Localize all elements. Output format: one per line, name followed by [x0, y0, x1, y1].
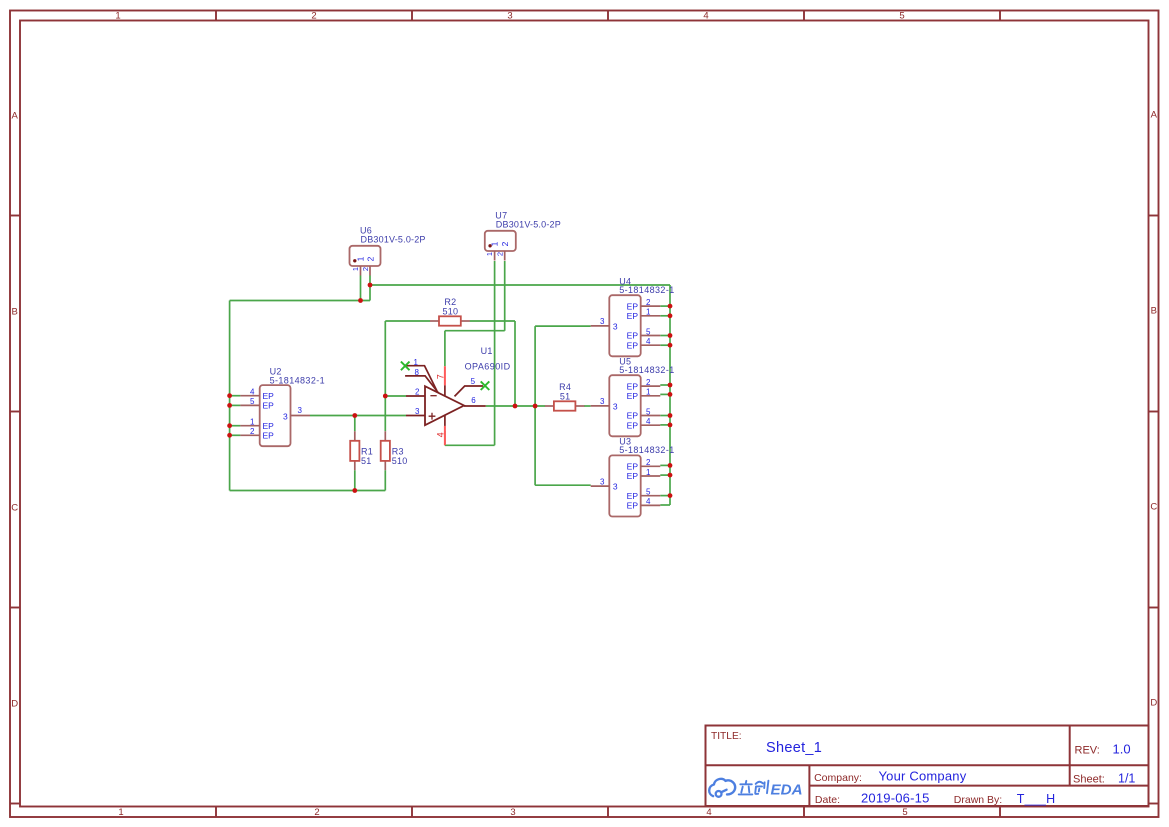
svg-text:5: 5: [471, 377, 476, 386]
svg-text:2: 2: [646, 458, 651, 467]
node feedback junction: [513, 404, 518, 409]
svg-text:EDA: EDA: [771, 781, 803, 798]
wire R2 feedback drop: [514, 321, 516, 406]
wire EP rail link: [660, 504, 670, 506]
svg-text:1/1: 1/1: [1118, 771, 1135, 785]
op-amp U1 pin 1: [406, 366, 437, 391]
svg-text:5-1814832-1: 5-1814832-1: [619, 365, 674, 375]
connector U4 5-1814832-1: [591, 276, 675, 356]
op-amp U1 pin 2 stub: [406, 395, 425, 397]
svg-text:EP: EP: [263, 401, 275, 411]
op-amp U1 OPA690ID: [401, 346, 511, 445]
svg-text:2: 2: [361, 267, 370, 271]
wire U6 pin2 drop: [369, 276, 371, 301]
wire noninverting input: [310, 415, 406, 417]
wire inverting input: [385, 395, 406, 397]
node U2 EP5 junction: [227, 403, 232, 408]
op-amp U1 pin 7 stub: [444, 385, 446, 396]
node U6 pin2 junction: [368, 283, 373, 288]
svg-text:4: 4: [703, 10, 708, 21]
wire R3 top vertical: [384, 321, 386, 431]
svg-text:3: 3: [510, 807, 515, 818]
svg-text:3: 3: [613, 321, 618, 331]
wire R4 to U5: [584, 405, 591, 407]
svg-text:3: 3: [283, 411, 288, 421]
wire EP rail right vertical: [669, 285, 671, 505]
wire R2 left: [385, 320, 430, 322]
node U4 EP1 junction: [668, 313, 673, 318]
wire U2 EP link: [230, 404, 241, 406]
resistor R1: [350, 431, 373, 470]
svg-text:7: 7: [435, 374, 445, 379]
svg-text:3: 3: [600, 317, 605, 326]
wire EP rail horizontal: [370, 284, 670, 286]
node U4 EP2 junction: [668, 304, 673, 309]
wire EP rail link: [660, 344, 670, 346]
svg-text:Your Company: Your Company: [879, 769, 967, 784]
svg-text:Sheet_1: Sheet_1: [766, 740, 822, 756]
svg-text:EP: EP: [627, 340, 639, 350]
wire EP rail link: [660, 474, 670, 476]
svg-text:3: 3: [415, 407, 420, 416]
svg-text:5: 5: [902, 807, 907, 818]
wire opamp pin7 vertical: [444, 331, 446, 367]
svg-text:6: 6: [471, 396, 476, 405]
svg-text:EP: EP: [627, 462, 639, 472]
svg-text:DB301V-5.0-2P: DB301V-5.0-2P: [361, 234, 426, 244]
svg-text:4: 4: [646, 337, 651, 346]
title block: [706, 726, 1149, 807]
svg-text:T___H: T___H: [1017, 792, 1056, 806]
svg-text:2: 2: [365, 256, 375, 261]
wire GND bottom horizontal: [230, 490, 386, 492]
node U2 EP4 junction: [227, 393, 232, 398]
wire R3 bottom: [384, 470, 386, 490]
svg-text:2: 2: [500, 241, 510, 246]
svg-text:R4: R4: [559, 382, 571, 392]
svg-text:EP: EP: [627, 391, 639, 401]
wire GND left vertical: [229, 301, 231, 491]
svg-text:1: 1: [250, 418, 255, 427]
svg-text:3: 3: [600, 477, 605, 486]
svg-text:5: 5: [646, 327, 651, 336]
svg-text:1.0: 1.0: [1113, 742, 1131, 757]
svg-text:EP: EP: [627, 491, 639, 501]
node U5 EP2 junction: [668, 383, 673, 388]
svg-text:C: C: [1150, 501, 1157, 512]
svg-text:5-1814832-1: 5-1814832-1: [619, 285, 674, 295]
node noninverting junction: [352, 413, 357, 418]
node output branch junction: [533, 404, 538, 409]
svg-text:1: 1: [118, 807, 123, 818]
svg-text:Date:: Date:: [815, 794, 840, 806]
svg-text:1: 1: [485, 252, 494, 256]
connector U6 DB301V-5.0-2P: [350, 225, 426, 275]
svg-text:2: 2: [646, 378, 651, 387]
node U3 EP5 junction: [668, 493, 673, 498]
svg-text:2: 2: [496, 252, 505, 256]
svg-text:Sheet:: Sheet:: [1073, 773, 1105, 785]
node inverting junction: [383, 394, 388, 399]
node U2 EP2 junction: [227, 433, 232, 438]
svg-text:1: 1: [646, 388, 651, 397]
svg-text:51: 51: [361, 456, 372, 466]
wire EP rail link: [660, 495, 670, 497]
wire U2 EP link: [230, 425, 241, 427]
svg-text:2: 2: [314, 807, 319, 818]
node U3 EP1 junction: [668, 473, 673, 478]
svg-text:EP: EP: [627, 331, 639, 341]
svg-text:2: 2: [250, 427, 255, 436]
wire U2 EP link: [230, 434, 241, 436]
svg-text:1: 1: [646, 308, 651, 317]
svg-text:Drawn By:: Drawn By:: [954, 794, 1002, 806]
svg-text:D: D: [11, 698, 18, 709]
node U6 pin1 junction: [358, 298, 363, 303]
svg-text:3: 3: [507, 10, 512, 21]
wire EP rail link: [660, 415, 670, 417]
wire output horizontal: [486, 405, 546, 407]
wire R1 top: [354, 416, 356, 432]
svg-text:B: B: [12, 306, 18, 317]
svg-text:8: 8: [415, 368, 420, 377]
wire U7 pin1 to opamp pin4: [494, 261, 496, 445]
node U2 EP1 junction: [227, 423, 232, 428]
wire EP rail link: [660, 305, 670, 307]
svg-text:C: C: [11, 502, 18, 513]
svg-text:5-1814832-1: 5-1814832-1: [270, 375, 325, 385]
resistor R2: [430, 297, 470, 326]
wire opamp pin4 horizontal: [445, 444, 495, 446]
svg-text:4: 4: [646, 417, 651, 426]
svg-text:EP: EP: [263, 421, 275, 431]
svg-text:EP: EP: [263, 431, 275, 441]
svg-text:2: 2: [415, 387, 420, 396]
op-amp U1 pin 8: [405, 376, 439, 393]
wire U2 EP link: [230, 395, 241, 397]
svg-text:5: 5: [899, 10, 904, 21]
svg-text:5: 5: [646, 407, 651, 416]
svg-text:5-1814832-1: 5-1814832-1: [619, 445, 674, 455]
wire output branch vertical: [534, 326, 536, 485]
svg-text:DB301V-5.0-2P: DB301V-5.0-2P: [496, 219, 561, 229]
svg-text:EP: EP: [627, 420, 639, 430]
svg-text:EP: EP: [627, 501, 639, 511]
wire EP rail link: [660, 335, 670, 337]
wire R2 right: [470, 320, 515, 322]
op-amp U1 pin 4 stub: [444, 416, 446, 426]
svg-text:EP: EP: [627, 381, 639, 391]
no-connect flag pin 1: [401, 362, 410, 371]
svg-text:TITLE:: TITLE:: [711, 731, 742, 742]
wire U6 pin1 drop: [360, 276, 362, 301]
resistor R3: [381, 431, 408, 470]
node U5 EP5 junction: [668, 413, 673, 418]
wire branch to U4 pin3: [535, 325, 591, 327]
svg-text:510: 510: [442, 306, 458, 316]
svg-text:R2: R2: [444, 297, 456, 307]
node U4 EP4 junction: [668, 343, 673, 348]
op-amp U1 plus sign: [429, 413, 436, 420]
svg-text:2: 2: [646, 298, 651, 307]
svg-text:4: 4: [250, 388, 255, 397]
svg-text:EP: EP: [627, 301, 639, 311]
node U5 EP4 junction: [668, 423, 673, 428]
svg-text:1: 1: [351, 267, 360, 271]
op-amp U1 pin 5: [455, 386, 484, 396]
svg-text:5: 5: [250, 397, 255, 406]
connector U5 5-1814832-1: [591, 356, 675, 436]
connector U2 5-1814832-1: [240, 367, 325, 447]
svg-text:1: 1: [115, 10, 120, 21]
wire EP rail link: [660, 393, 670, 395]
op-amp U1 pin 3 stub: [406, 415, 425, 417]
svg-text:1: 1: [646, 468, 651, 477]
svg-text:REV:: REV:: [1075, 745, 1100, 757]
wire branch to U3 pin3: [535, 484, 591, 486]
wire GND top-left horizontal: [230, 300, 370, 302]
op-amp U1 pin 4 power segment: [444, 426, 446, 445]
svg-text:51: 51: [560, 391, 571, 401]
svg-text:Company:: Company:: [814, 772, 862, 784]
svg-text:4: 4: [706, 807, 711, 818]
node U3 EP2 junction: [668, 463, 673, 468]
svg-text:3: 3: [613, 401, 618, 411]
wire EP rail link: [660, 424, 670, 426]
svg-text:EP: EP: [627, 411, 639, 421]
wire EP rail link: [660, 315, 670, 317]
svg-text:EP: EP: [627, 311, 639, 321]
svg-text:1: 1: [489, 241, 499, 246]
svg-text:2019-06-15: 2019-06-15: [861, 791, 930, 806]
no-connect flag pin 5: [481, 381, 490, 390]
svg-text:A: A: [12, 110, 19, 121]
svg-text:2: 2: [311, 10, 316, 21]
op-amp U1 minus sign: [430, 395, 436, 397]
svg-text:U1: U1: [481, 346, 493, 356]
wire U7 pin2 drop: [504, 261, 506, 331]
op-amp U1 pin 7 power segment: [444, 366, 446, 385]
svg-text:3: 3: [613, 482, 618, 492]
svg-text:5: 5: [646, 488, 651, 497]
svg-text:OPA690ID: OPA690ID: [465, 362, 511, 372]
svg-text:510: 510: [392, 456, 408, 466]
svg-text:B: B: [1151, 305, 1157, 316]
svg-text:D: D: [1150, 697, 1157, 708]
wire EP rail link: [660, 464, 670, 466]
wire R1 bottom: [354, 470, 356, 490]
LCEDA logo text: [739, 781, 769, 795]
op-amp U1 triangle body: [425, 386, 464, 425]
node U4 EP5 junction: [668, 333, 673, 338]
svg-text:1: 1: [355, 256, 365, 261]
svg-text:EP: EP: [627, 471, 639, 481]
node U5 EP1 junction: [668, 392, 673, 397]
wire EP rail link: [660, 384, 670, 386]
op-amp U1 pin 6 stub: [464, 405, 486, 407]
wire opamp pin7 horizontal: [445, 330, 505, 332]
svg-text:3: 3: [298, 406, 303, 415]
svg-text:4: 4: [435, 432, 445, 437]
LCEDA logo cloud: [709, 779, 735, 797]
svg-text:EP: EP: [263, 391, 275, 401]
wire opamp pin4 vertical: [444, 431, 446, 445]
svg-text:4: 4: [646, 497, 651, 506]
svg-text:1: 1: [414, 358, 419, 367]
svg-text:3: 3: [600, 397, 605, 406]
connector U3 5-1814832-1: [591, 437, 675, 517]
resistor R4: [545, 382, 585, 411]
svg-text:A: A: [1151, 109, 1158, 120]
connector U7 DB301V-5.0-2P: [485, 210, 561, 260]
node R1 bottom junction: [352, 488, 357, 493]
